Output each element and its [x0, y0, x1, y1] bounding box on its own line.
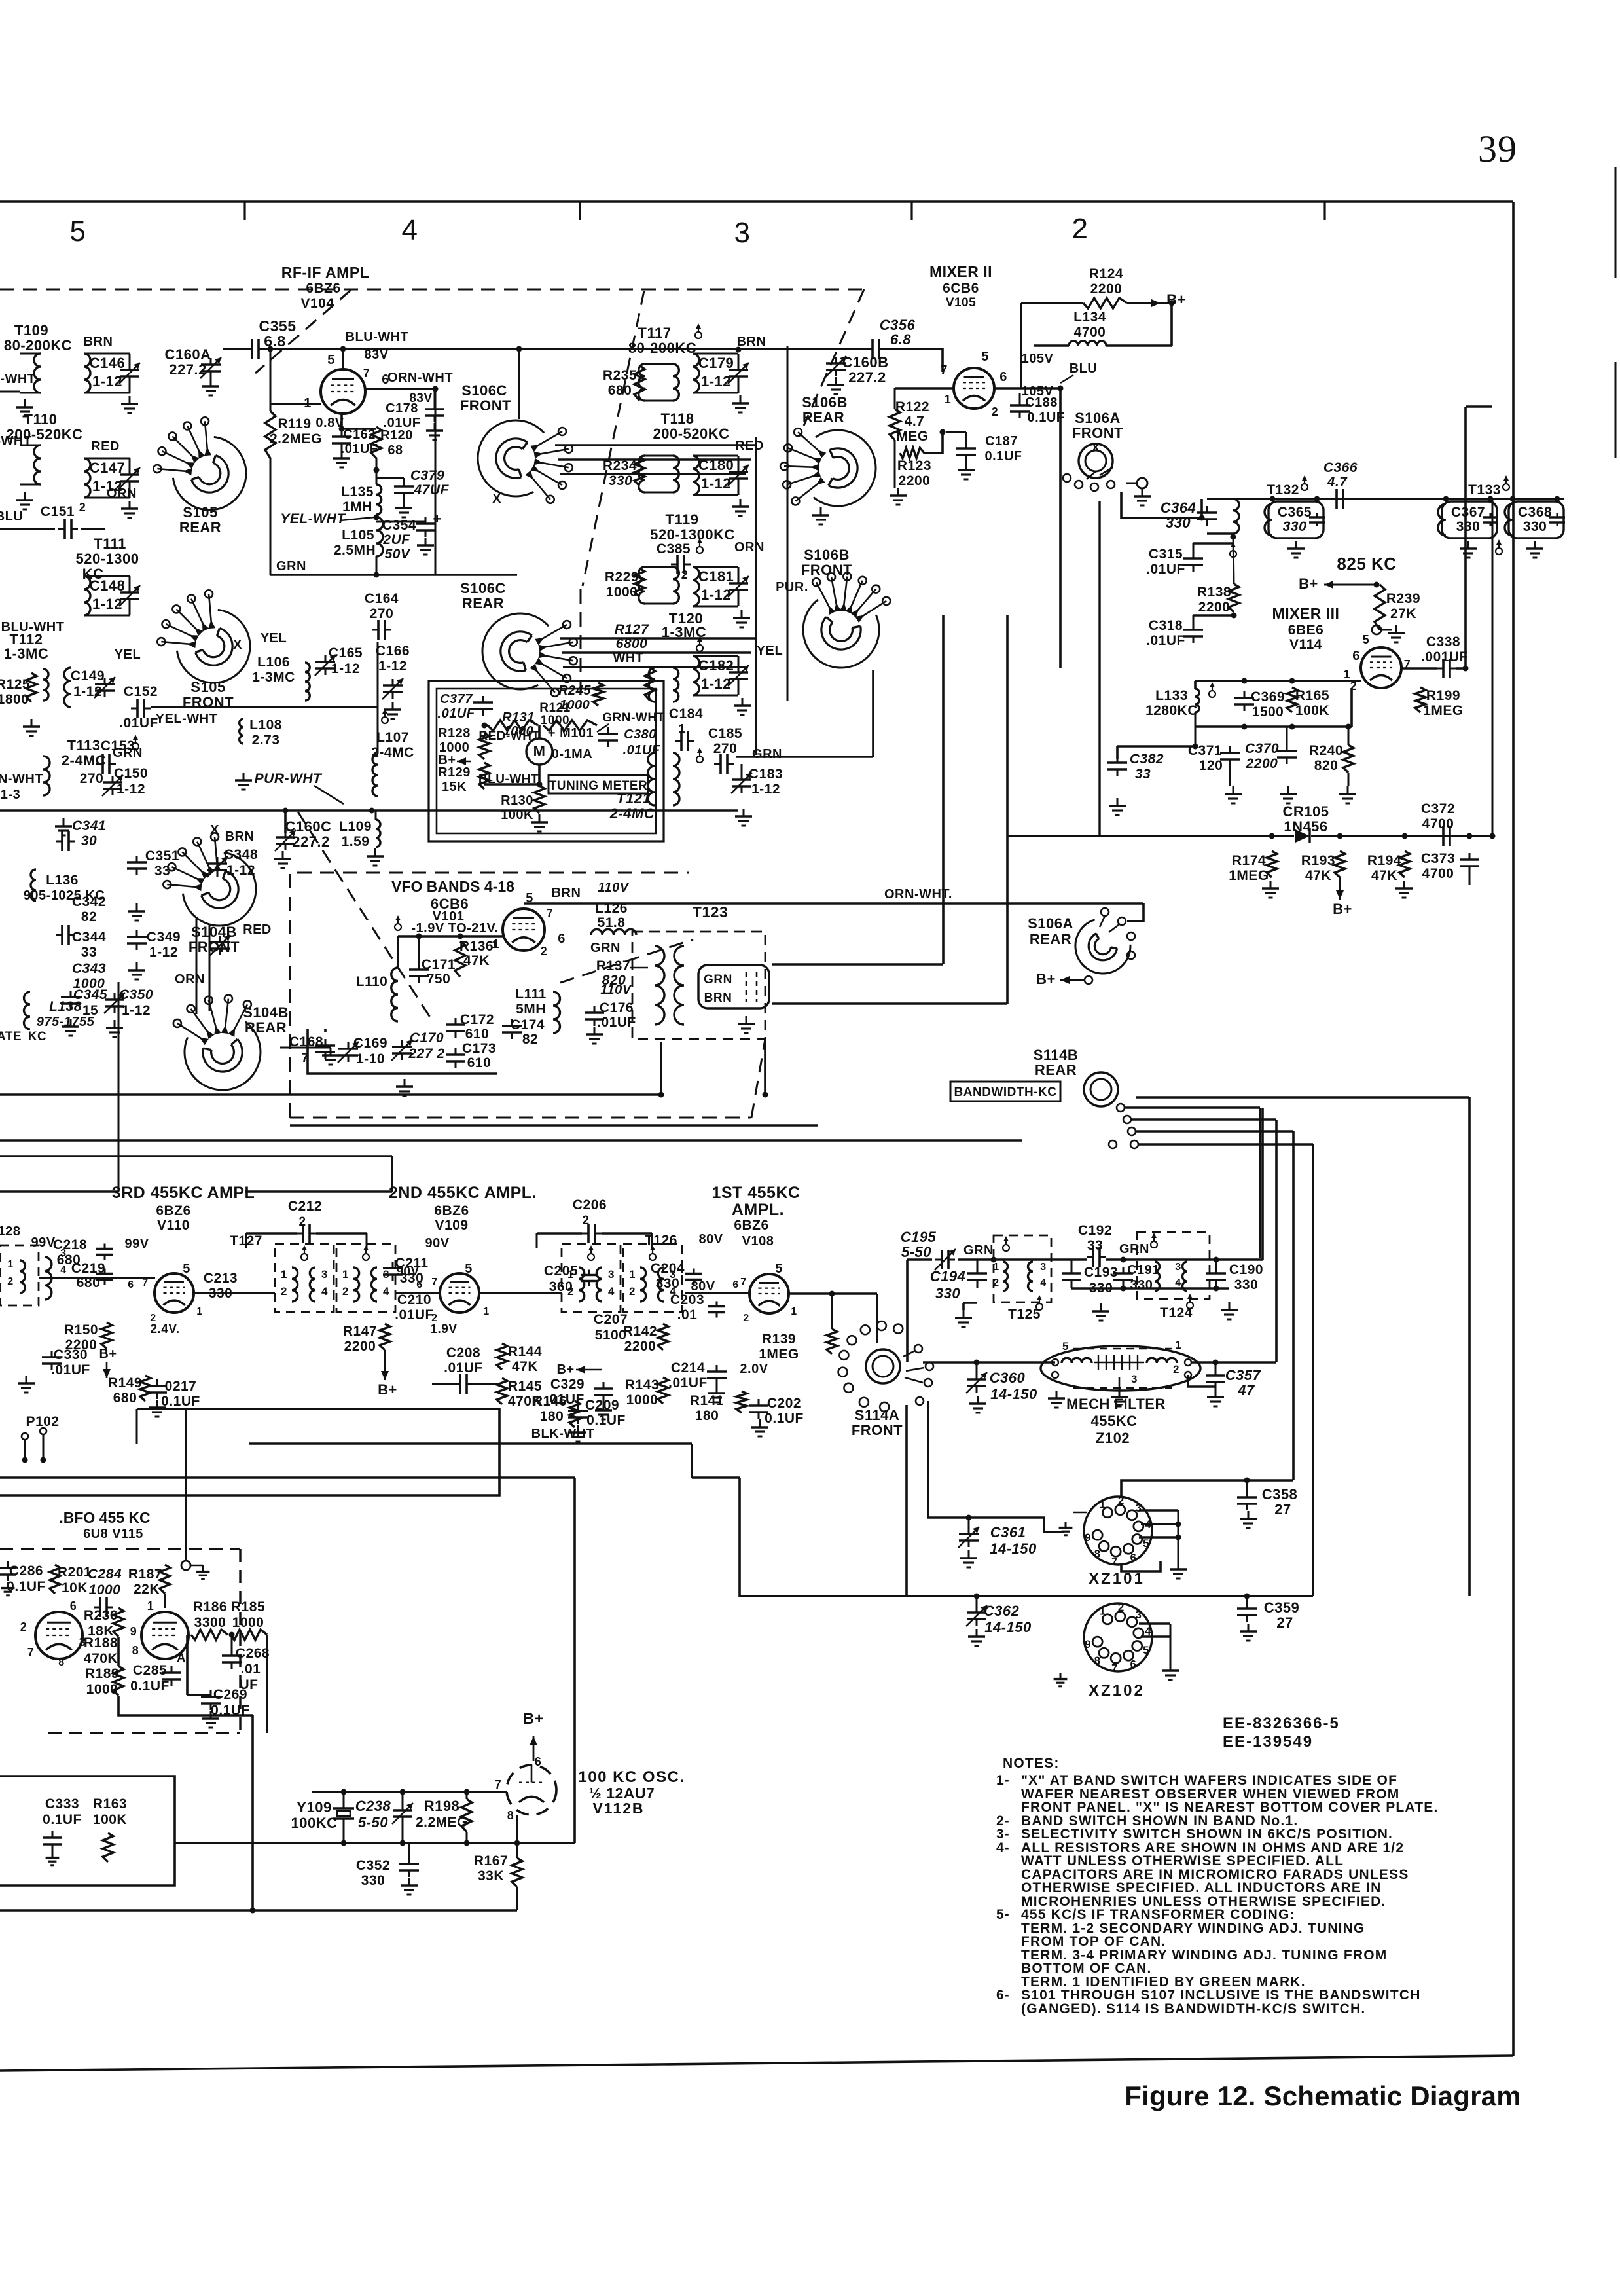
svg-text:R127: R127: [615, 622, 649, 637]
svg-text:6-: 6-: [996, 1988, 1010, 2003]
svg-text:5: 5: [70, 215, 86, 247]
svg-text:C146: C146: [90, 355, 126, 371]
svg-text:750: 750: [427, 972, 451, 987]
wire ORN-WHT: [365, 386, 439, 392]
svg-text:MIXER II: MIXER II: [929, 263, 992, 280]
capacitor C333 0.1UF: [43, 1796, 82, 1865]
bottom border line: [0, 2056, 1513, 2071]
svg-text:OTHERWISE SPECIFIED. ALL INDUC: OTHERWISE SPECIFIED. ALL INDUCTORS ARE I…: [1021, 1880, 1382, 1895]
svg-text:C345: C345: [73, 987, 107, 1002]
svg-text:7: 7: [1111, 1556, 1118, 1568]
wire S114B w2: [1125, 1106, 1260, 1109]
svg-text:4: 4: [608, 1285, 615, 1298]
resistor R123 2200: [890, 440, 931, 505]
svg-text:820: 820: [1314, 758, 1339, 773]
label MECH FILTER: [1066, 1396, 1166, 1446]
svg-text:6BE6: 6BE6: [1288, 623, 1324, 638]
label B+ meter: [438, 753, 471, 767]
rotary switch S106B REAR: [780, 394, 876, 506]
svg-text:105V: 105V: [1022, 352, 1054, 366]
zone number 2: [1072, 213, 1089, 245]
svg-text:C369: C369: [1251, 689, 1285, 704]
svg-text:C190: C190: [1229, 1262, 1263, 1277]
tube V114 6BE6: [1361, 647, 1401, 688]
wire pin1 to R119: [270, 403, 321, 405]
wire S114B w4: [1136, 1130, 1293, 1133]
svg-text:PUR-WHT: PUR-WHT: [255, 771, 323, 786]
label B+ osc: [523, 1710, 544, 1761]
svg-text:1.9V: 1.9V: [430, 1322, 457, 1336]
svg-text:FRONT PANEL. "X" IS NEAREST BO: FRONT PANEL. "X" IS NEAREST BOTTOM COVER…: [1021, 1800, 1439, 1815]
svg-text:P102: P102: [26, 1414, 59, 1429]
resistor R137 820: [596, 958, 648, 988]
svg-text:2.73: 2.73: [252, 733, 280, 748]
wire R120 to L135: [374, 458, 380, 484]
svg-text:2: 2: [993, 1277, 999, 1288]
svg-text:R141: R141: [690, 1393, 724, 1408]
svg-text:1: 1: [342, 1268, 349, 1281]
svg-text:90V: 90V: [425, 1236, 449, 1250]
svg-text:3: 3: [1175, 1262, 1181, 1273]
svg-text:R122: R122: [895, 399, 929, 414]
wire det bus left: [1098, 501, 1100, 836]
svg-text:C218: C218: [53, 1237, 87, 1252]
inductor L111 5MH: [515, 987, 560, 1033]
svg-text:V109: V109: [435, 1218, 468, 1233]
capacitor C218 680: [53, 1237, 113, 1267]
svg-text:.01UF: .01UF: [623, 743, 660, 757]
svg-text:68: 68: [387, 443, 403, 458]
capacitor C172 610: [446, 1012, 494, 1042]
svg-text:1-12: 1-12: [701, 587, 731, 603]
meter wires: [482, 723, 543, 788]
svg-text:.01: .01: [241, 1662, 261, 1677]
svg-text:3: 3: [1131, 1373, 1138, 1385]
capacitor C190 330: [1206, 1260, 1263, 1319]
resistor R245 1000: [558, 683, 603, 712]
transformer T127 can B: [336, 1244, 395, 1312]
svg-text:L136: L136: [46, 873, 79, 888]
capacitor C164 270: [365, 591, 399, 640]
svg-text:R130: R130: [501, 793, 533, 808]
svg-text:R240: R240: [1309, 743, 1343, 758]
svg-text:128: 128: [0, 1224, 20, 1239]
transformer T109 winding: [20, 354, 41, 393]
transformer T120 label: [662, 610, 707, 640]
label pins V110: [128, 1262, 202, 1336]
resistor R185 1000: [230, 1599, 267, 1640]
capacitor C370 2200: [1245, 727, 1297, 803]
svg-text:1-10: 1-10: [356, 1051, 385, 1066]
svg-text:MECH FILTER: MECH FILTER: [1066, 1396, 1166, 1412]
transformer T121 label: [609, 790, 655, 822]
label GRN C194: [963, 1243, 994, 1258]
label T124: [1160, 1294, 1193, 1321]
wire IF bus 1: [0, 1093, 661, 1096]
wire osc cathode: [514, 1815, 520, 1846]
svg-text:455 KC/S IF TRANSFORMER CODING: 455 KC/S IF TRANSFORMER CODING:: [1021, 1907, 1295, 1922]
capacitor C338 .001UF: [1401, 634, 1469, 678]
svg-text:RF-IF AMPL: RF-IF AMPL: [281, 264, 369, 281]
wire bus X vertical 1: [755, 437, 757, 755]
svg-text:2: 2: [79, 501, 86, 514]
svg-text:GRN-WHT: GRN-WHT: [602, 711, 664, 725]
svg-text:B+: B+: [1333, 901, 1352, 917]
wire mixerII misc: [924, 429, 946, 454]
svg-text:110V: 110V: [598, 881, 629, 895]
label T126: [645, 1233, 677, 1248]
capacitor C371 120: [1188, 712, 1242, 803]
label VFO BANDS 4-18: [391, 878, 514, 895]
wire vert x878: [573, 1478, 576, 1843]
capacitor C150 1-12: [102, 766, 148, 797]
svg-text:MIXER III: MIXER III: [1272, 605, 1340, 622]
svg-text:6: 6: [1352, 649, 1360, 663]
svg-text:FROM TOP OF CAN.: FROM TOP OF CAN.: [1021, 1934, 1166, 1949]
label T127: [230, 1233, 262, 1248]
svg-text:1: 1: [1100, 1605, 1106, 1617]
inductor L135 1MH: [341, 484, 382, 515]
tube V115A 6U8: [35, 1612, 82, 1659]
svg-text:5: 5: [327, 353, 335, 367]
capacitor C185 270: [696, 726, 742, 774]
svg-text:680: 680: [608, 383, 632, 398]
svg-text:6: 6: [535, 1755, 542, 1768]
inductor L106 1-3MC: [252, 631, 310, 701]
svg-text:C182: C182: [698, 657, 734, 674]
capacitor C152 .01UF: [119, 684, 158, 731]
inductor L105 2.5MH: [334, 517, 383, 558]
inductor L136 905-1025KC: [24, 869, 105, 903]
resistor R188 470K: [84, 1635, 118, 1666]
transformer T112 winding: [43, 669, 48, 701]
label ORN S104B: [175, 972, 205, 987]
svg-text:2: 2: [1118, 1601, 1125, 1613]
svg-text:0.1UF: 0.1UF: [43, 1812, 82, 1827]
svg-text:6: 6: [999, 370, 1007, 384]
capacitor C360 14-150: [966, 1362, 1037, 1413]
svg-text:T118: T118: [661, 410, 694, 427]
svg-text:33: 33: [81, 945, 97, 960]
svg-text:1ST 455KC: 1ST 455KC: [711, 1184, 800, 1202]
inductor L107 2-4MC: [371, 642, 414, 796]
label MIXER II: [929, 263, 992, 280]
svg-text:6800: 6800: [616, 636, 648, 651]
label 6U8 V115: [83, 1527, 143, 1541]
svg-text:7: 7: [495, 1778, 502, 1791]
capacitor C171 750: [409, 936, 456, 987]
svg-text:C269: C269: [213, 1687, 247, 1702]
svg-text:5: 5: [775, 1262, 783, 1276]
svg-text:Z102: Z102: [1096, 1430, 1130, 1446]
svg-text:9: 9: [1085, 1638, 1091, 1650]
svg-text:330: 330: [361, 1873, 386, 1888]
capacitor C165 1-12: [315, 646, 363, 676]
svg-text:C385: C385: [657, 541, 691, 556]
svg-text:GRN: GRN: [1119, 1242, 1149, 1256]
capacitor C269 0.1UF: [187, 1687, 250, 1728]
svg-text:Figure 12. Schematic Diagram: Figure 12. Schematic Diagram: [1125, 2081, 1521, 2111]
capacitor C315 .01UF: [1146, 543, 1233, 577]
svg-text:1-12: 1-12: [331, 661, 360, 676]
svg-text:8: 8: [1094, 1654, 1101, 1667]
svg-text:C160B: C160B: [842, 354, 889, 371]
svg-text:C191: C191: [1127, 1263, 1160, 1277]
ruler tick 4: [1323, 202, 1325, 220]
rotary switch S104B REAR: [173, 994, 289, 1090]
svg-text:S114B: S114B: [1034, 1047, 1079, 1063]
wire mixerIII cath: [1195, 688, 1352, 730]
svg-text:470K: 470K: [84, 1651, 118, 1666]
svg-text:1N456: 1N456: [1284, 818, 1327, 835]
label XZ101: [1089, 1570, 1145, 1588]
svg-text:M: M: [533, 743, 546, 759]
svg-text:6BZ6: 6BZ6: [434, 1203, 469, 1218]
wire T123 out 2: [772, 1002, 1007, 1005]
svg-text:N-WHT: N-WHT: [0, 372, 36, 386]
svg-text:T109: T109: [14, 322, 48, 338]
ground C179: [732, 395, 749, 412]
capacitor C344 33: [56, 925, 147, 960]
capacitor C192 33: [1078, 1223, 1112, 1267]
resistor R138 2200: [1197, 537, 1239, 615]
svg-text:80-200KC: 80-200KC: [4, 337, 72, 354]
capacitor C382 33: [1107, 744, 1198, 816]
rotary switch S106A REAR: [1028, 915, 1130, 974]
svg-text:V112B: V112B: [592, 1800, 644, 1817]
label BRN V101: [552, 886, 581, 900]
wire S106C FRONT contacts: [555, 445, 756, 474]
svg-text:FRONT: FRONT: [1072, 425, 1123, 441]
wire S106B riser B: [1006, 615, 1009, 1004]
svg-text:15K: 15K: [442, 780, 467, 794]
rotary switch S114A: [866, 1349, 900, 1383]
capacitor C341 30: [56, 818, 106, 851]
resistor R131 1000: [488, 710, 538, 738]
label GRN C191: [1119, 1242, 1149, 1256]
svg-text:1: 1: [945, 393, 952, 406]
capacitor C351 33: [127, 848, 179, 920]
svg-text:S101 THROUGH S107 INCLUSIVE IS: S101 THROUGH S107 INCLUSIVE IS THE BANDS…: [1021, 1988, 1421, 2003]
dashed diagonal T123: [560, 939, 693, 983]
svg-text:1-12: 1-12: [701, 475, 731, 492]
svg-text:3: 3: [1135, 1609, 1142, 1621]
svg-text:330: 330: [1234, 1277, 1259, 1292]
label ORN T119: [734, 540, 765, 555]
svg-text:120: 120: [1199, 758, 1223, 773]
wire mixerIII grid: [1195, 678, 1361, 689]
wire ORN-WHT vertical: [435, 389, 437, 575]
label YEL T120: [757, 644, 783, 658]
svg-text:4: 4: [383, 1285, 389, 1298]
svg-text:C151: C151: [41, 504, 75, 519]
label GRN mid: [752, 747, 782, 761]
svg-text:R150: R150: [64, 1322, 98, 1338]
resistor R236 18K: [84, 1608, 124, 1639]
svg-text:V108: V108: [742, 1234, 774, 1248]
svg-text:R143: R143: [625, 1377, 659, 1393]
svg-text:82: 82: [81, 909, 97, 924]
svg-text:B+: B+: [556, 1362, 574, 1377]
capacitor C286 0.1UF: [0, 1561, 46, 1595]
label B+ S106A: [1036, 971, 1084, 987]
capacitor C195 5-50: [901, 1229, 956, 1270]
label 6BZ6 V104: [300, 281, 340, 311]
tube V104 6BZ6: [321, 349, 365, 414]
svg-text:FRONT: FRONT: [801, 562, 852, 578]
label 0.8V: [315, 416, 344, 430]
svg-text:BRN: BRN: [84, 335, 113, 349]
svg-text:T117: T117: [638, 325, 672, 341]
svg-text:R229: R229: [605, 570, 639, 585]
wire C356 bus: [641, 349, 943, 372]
svg-text:GRN: GRN: [113, 746, 143, 760]
label RED left: [91, 439, 120, 454]
svg-text:330: 330: [609, 473, 633, 488]
svg-text:R131: R131: [502, 710, 535, 725]
label GRN-WHT meter: [597, 711, 665, 732]
label PUR-WHT: [255, 771, 344, 804]
svg-text:1-12: 1-12: [122, 1003, 151, 1018]
ground VFO: [396, 1079, 413, 1096]
tube V101 6CB6: [503, 909, 545, 951]
svg-text:0-1MA: 0-1MA: [552, 747, 593, 761]
svg-text:X: X: [1092, 441, 1100, 454]
resistor R201 10K: [50, 1565, 92, 1595]
svg-text:C367: C367: [1451, 505, 1485, 520]
svg-text:7: 7: [940, 363, 948, 378]
wire IF can bus: [1233, 496, 1564, 502]
svg-text:R121: R121: [539, 701, 570, 715]
capacitor C212 2: [246, 1199, 367, 1248]
svg-text:C286: C286: [9, 1563, 43, 1578]
label 6BZ6 V108: [734, 1218, 774, 1248]
capacitor C210 .01UF: [395, 1292, 434, 1322]
svg-text:C194: C194: [930, 1268, 966, 1285]
capacitor C206 2: [537, 1197, 652, 1248]
svg-text:L105: L105: [342, 528, 374, 543]
svg-text:YEL: YEL: [261, 631, 287, 646]
wire C358 in: [1121, 1478, 1293, 1499]
svg-text:+ M101: + M101: [548, 726, 594, 740]
svg-text:R120: R120: [380, 428, 413, 443]
svg-text:110V: 110V: [600, 983, 632, 997]
svg-text:S106B: S106B: [804, 547, 850, 563]
wire S114B w1: [1136, 1096, 1469, 1099]
capacitor C160B 227.2: [825, 354, 888, 394]
bandwidth label box: [950, 1082, 1060, 1101]
svg-text:PUR.: PUR.: [776, 580, 808, 594]
svg-text:C173: C173: [462, 1041, 496, 1056]
svg-text:3: 3: [321, 1268, 328, 1281]
ground T113: [55, 818, 72, 835]
svg-text:15: 15: [82, 1003, 98, 1018]
label YEL-WHT: [280, 511, 379, 526]
svg-text:5-: 5-: [996, 1907, 1010, 1922]
svg-text:WHT: WHT: [613, 651, 643, 665]
svg-text:C364: C364: [1161, 500, 1197, 516]
svg-text:.01UF: .01UF: [668, 1376, 708, 1391]
svg-text:5MH: 5MH: [516, 1002, 546, 1017]
svg-text:C379: C379: [410, 468, 444, 483]
inductor L134 4700: [1034, 310, 1172, 346]
resistor R128 1000: [438, 726, 490, 759]
resistor R193 47K: [1301, 851, 1352, 917]
ruler tick 1: [243, 202, 245, 220]
label ORN left: [107, 486, 137, 501]
capacitor C188 0.1UF: [1010, 393, 1064, 425]
resistor R125 1800: [0, 673, 37, 707]
resistor R229 1000: [605, 568, 645, 600]
transformer T127 can A: [275, 1244, 334, 1312]
tube V112B half 12AU7: [507, 1765, 556, 1815]
svg-text:.47UF: .47UF: [410, 483, 449, 498]
svg-text:0.1UF: 0.1UF: [130, 1679, 170, 1694]
svg-text:C160A: C160A: [165, 346, 211, 363]
svg-text:BRN: BRN: [704, 991, 732, 1005]
svg-text:270: 270: [370, 606, 394, 621]
svg-text:C268: C268: [236, 1646, 270, 1661]
label YEL S105F: [115, 647, 141, 662]
svg-text:YEL-WHT: YEL-WHT: [156, 712, 218, 726]
svg-text:R147: R147: [343, 1324, 377, 1339]
svg-text:.01UF: .01UF: [384, 416, 421, 430]
svg-text:3: 3: [608, 1268, 615, 1281]
V114 top cap: [1372, 625, 1405, 642]
svg-text:FRONT: FRONT: [852, 1422, 903, 1438]
transformer T126 can A: [562, 1244, 621, 1312]
svg-text:2: 2: [20, 1620, 27, 1633]
label B+ R124: [1134, 291, 1186, 308]
resistor R167 33K: [474, 1843, 522, 1910]
svg-text:2.4V.: 2.4V.: [150, 1322, 179, 1336]
capacitor C238 5-50: [355, 1792, 413, 1846]
label 99V T128: [31, 1235, 55, 1250]
svg-text:27K: 27K: [1390, 606, 1416, 621]
label pins V112B: [495, 1755, 542, 1822]
svg-text:GRN: GRN: [590, 941, 621, 955]
figure caption: [1125, 2081, 1521, 2111]
svg-text:1-12: 1-12: [701, 373, 731, 390]
svg-text:R149: R149: [108, 1376, 142, 1391]
svg-text:R145: R145: [508, 1379, 542, 1394]
svg-text:R119: R119: [278, 416, 311, 431]
resistor R127 6800: [613, 622, 655, 701]
svg-text:100KC: 100KC: [291, 1815, 338, 1831]
BFO dashed box: [0, 1549, 240, 1733]
label pins V115B: [130, 1599, 186, 1664]
zone number 4: [402, 214, 418, 246]
resistor R142 2200: [623, 1324, 668, 1354]
svg-text:AMPL.: AMPL.: [732, 1201, 784, 1219]
svg-text:330: 330: [1456, 519, 1481, 534]
svg-text:C338: C338: [1426, 634, 1460, 649]
svg-text:Y109: Y109: [297, 1799, 331, 1815]
transformer T113 winding: [43, 756, 50, 795]
wire S106A to cans: [1121, 492, 1205, 521]
svg-text:KC: KC: [28, 1030, 46, 1044]
transformer T118 windings: [639, 456, 679, 492]
right border line: [1512, 202, 1515, 2056]
svg-text:8: 8: [1094, 1548, 1101, 1560]
label RED S104: [243, 922, 272, 937]
resistor R124 2200: [1083, 266, 1127, 308]
svg-text:1-3: 1-3: [1, 788, 20, 802]
capacitor C357 47: [1206, 1362, 1262, 1406]
svg-text:-1.9V TO-21V.: -1.9V TO-21V.: [411, 921, 498, 936]
svg-text:BANDWIDTH-KC: BANDWIDTH-KC: [954, 1085, 1057, 1099]
svg-text:80V: 80V: [698, 1232, 723, 1247]
